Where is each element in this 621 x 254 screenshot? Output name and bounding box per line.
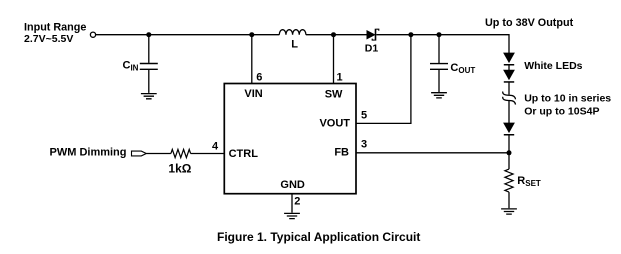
svg-text:L: L bbox=[291, 39, 298, 51]
svg-text:RSET: RSET bbox=[517, 175, 541, 188]
svg-text:2.7V~5.5V: 2.7V~5.5V bbox=[24, 33, 73, 45]
svg-text:Or up to 10S4P: Or up to 10S4P bbox=[524, 105, 599, 117]
svg-text:COUT: COUT bbox=[450, 62, 475, 75]
svg-text:4: 4 bbox=[212, 141, 219, 153]
svg-text:1kΩ: 1kΩ bbox=[168, 161, 191, 175]
svg-text:D1: D1 bbox=[365, 43, 379, 55]
svg-text:GND: GND bbox=[280, 179, 305, 191]
svg-text:Up to 10 in series: Up to 10 in series bbox=[524, 93, 611, 105]
svg-text:5: 5 bbox=[361, 109, 367, 121]
svg-text:6: 6 bbox=[256, 72, 262, 84]
svg-text:VOUT: VOUT bbox=[319, 117, 350, 129]
svg-text:Up to 38V Output: Up to 38V Output bbox=[485, 17, 574, 29]
svg-text:Input Range: Input Range bbox=[24, 22, 86, 34]
svg-text:CTRL: CTRL bbox=[229, 148, 259, 160]
svg-text:3: 3 bbox=[361, 138, 367, 150]
svg-text:White LEDs: White LEDs bbox=[524, 60, 582, 72]
svg-text:2: 2 bbox=[294, 196, 300, 208]
svg-text:VIN: VIN bbox=[244, 88, 262, 100]
svg-text:Figure 1. Typical Application: Figure 1. Typical Application Circuit bbox=[217, 230, 420, 244]
svg-text:PWM Dimming: PWM Dimming bbox=[50, 147, 127, 159]
svg-text:CIN: CIN bbox=[123, 60, 139, 73]
svg-text:1: 1 bbox=[337, 72, 343, 84]
svg-text:FB: FB bbox=[334, 146, 349, 158]
svg-text:SW: SW bbox=[325, 88, 343, 100]
